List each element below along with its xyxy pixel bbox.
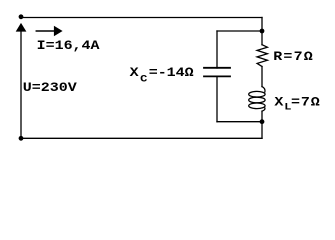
node top-left <box>19 14 24 19</box>
node A (top junction of parallel branches) <box>260 29 265 34</box>
node bottom-left <box>19 136 24 141</box>
svg-text:I=16,4A: I=16,4A <box>37 39 100 54</box>
svg-text:U=230V: U=230V <box>23 81 78 96</box>
wire right lower segment <box>261 122 263 139</box>
svg-text:R=7Ω: R=7Ω <box>273 50 314 65</box>
svg-text:X: X <box>130 66 140 81</box>
wire top <box>21 17 262 19</box>
current arrow I <box>36 26 62 36</box>
voltage arrow U (up arrowhead on left wire) <box>16 23 27 32</box>
wire left <box>20 31 22 138</box>
wire capacitor branch bottom <box>217 121 262 123</box>
capacitor C1 top plate <box>204 67 230 69</box>
inductor L1 coil <box>249 87 265 112</box>
resistor R1 zigzag <box>257 45 267 67</box>
wire between inductor and node B <box>261 111 263 122</box>
wire right upper segment <box>261 18 263 45</box>
svg-text:=-14Ω: =-14Ω <box>149 66 195 81</box>
svg-text:=7Ω: =7Ω <box>291 95 321 110</box>
wire between resistor and inductor <box>261 67 263 87</box>
node B (bottom junction of parallel branches) <box>260 119 265 124</box>
capacitor C1 bottom plate <box>204 75 230 77</box>
wire capacitor upper lead <box>216 31 218 68</box>
wire capacitor lower lead <box>216 77 218 122</box>
svg-text:C: C <box>140 74 147 85</box>
wire capacitor branch top <box>217 30 262 32</box>
wire bottom <box>21 137 262 139</box>
svg-text:X: X <box>274 95 284 110</box>
